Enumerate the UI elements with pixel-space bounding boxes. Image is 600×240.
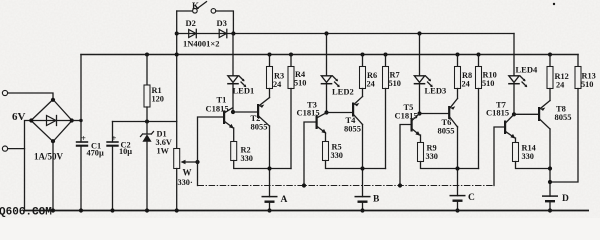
diode D2 (186, 18, 197, 38)
node R12 top (548, 53, 552, 57)
input terminal top (2, 90, 53, 99)
battery C (450, 193, 476, 211)
wire T4 base (327, 112, 353, 114)
node ground bridge (51, 208, 55, 212)
wire LED1 column (232, 34, 234, 113)
node T3 collector (324, 110, 328, 114)
wire C1 column (80, 55, 82, 211)
node LED3 top (417, 31, 421, 35)
node T1 collector (231, 110, 235, 114)
resistor R4 510 (288, 55, 306, 169)
node T5 collector (417, 111, 421, 115)
node base stub stage2 (302, 183, 306, 187)
wire T3 emitter to R5 (325, 133, 327, 142)
battery B (355, 195, 381, 211)
transistor T3 C1815 (297, 100, 327, 134)
base sense rail (198, 185, 495, 187)
wire T2 collector column (269, 126, 271, 197)
transistor T7 C1815 (486, 100, 515, 139)
resistor R13 510 (550, 55, 596, 183)
wire base stub stage2 (304, 122, 316, 186)
node ground D1 (145, 208, 149, 212)
LED2 (321, 76, 354, 97)
resistor R2 330 (231, 142, 291, 169)
node LED2 top (324, 31, 328, 35)
resistor R14 330 (513, 143, 551, 169)
resistor R9 330 (418, 143, 479, 169)
transistor T1 C1815 (206, 95, 234, 129)
transistor T2 8055 (251, 98, 270, 132)
switch K (177, 1, 234, 34)
capacitor C1 470u (76, 133, 104, 158)
LED3 (414, 76, 447, 96)
resistor R7 510 (383, 55, 401, 169)
node zener (145, 120, 149, 124)
wire T6 collector column (457, 127, 459, 196)
node R6 top (361, 53, 365, 57)
resistor R12 24 (547, 55, 569, 101)
input terminal bottom (2, 146, 24, 151)
wire T1 emitter to R2 (233, 128, 235, 142)
wire T4 collector column (362, 125, 364, 197)
node wiper (195, 160, 199, 164)
diode line (177, 33, 514, 35)
node T7 collector (512, 112, 516, 116)
node battery D ground (548, 208, 552, 212)
LED4 (508, 65, 538, 88)
wire LED4 column (513, 84, 515, 115)
resistor R1 120 (144, 55, 164, 122)
node R3 top (268, 53, 272, 57)
node battery B top (360, 166, 364, 170)
capacitor C2 10u (106, 133, 132, 156)
transistor T6 8055 (438, 99, 458, 136)
LED1 (227, 76, 254, 96)
wire T2 base (233, 111, 257, 113)
node battery B ground (360, 208, 364, 212)
node battery D top (548, 166, 552, 170)
wire T5 emitter to R9 (420, 135, 422, 143)
node battery A ground (267, 208, 271, 212)
wire T7 emitter to R14 (515, 138, 517, 143)
node R13 join (548, 180, 552, 184)
wire bridge plus (72, 120, 81, 122)
wire C2 column (112, 122, 114, 211)
transistor T4 8055 (344, 97, 363, 134)
resistor R3 24 (267, 55, 285, 98)
node R4 top (289, 53, 293, 57)
main positive rail (81, 54, 578, 56)
node rail W (175, 53, 179, 57)
battery D (542, 194, 569, 211)
wire T6 base (420, 113, 449, 115)
node ground C2 (110, 208, 114, 212)
resistor R6 24 (360, 55, 378, 97)
node R7 top (384, 53, 388, 57)
node diode line left (175, 32, 179, 36)
wire wiper to base rail (197, 162, 199, 186)
node R10 top (477, 53, 481, 57)
wire LED line right turn down (513, 34, 515, 76)
resistor R8 24 (455, 55, 473, 99)
wire bridge minus to ground rail (52, 142, 54, 211)
node battery A top (267, 166, 271, 170)
node bridge plus (79, 119, 82, 122)
zener node wire (113, 121, 177, 123)
wire T8 base (514, 113, 538, 115)
bridge rectifier 1A/50V (29, 98, 74, 144)
potentiometer W 330 (174, 149, 198, 211)
wire wiper to T1 base (198, 117, 224, 162)
node ground C1 (79, 208, 83, 212)
wire W column from switch line down (176, 11, 178, 149)
node R1 top (145, 53, 149, 57)
wire AC left (25, 121, 31, 211)
wire base stub stage4 (494, 127, 504, 186)
wire LED3 column (419, 34, 421, 114)
wire base stub stage3 (400, 125, 411, 186)
ground rail (25, 210, 590, 212)
node battery C top (455, 166, 459, 170)
transistor T5 C1815 (395, 102, 421, 136)
wire LED2 column (326, 34, 328, 113)
node battery C ground (455, 208, 459, 212)
resistor R10 510 (476, 55, 497, 169)
node D3 junction (231, 31, 235, 35)
node base stub stage3 (398, 183, 402, 187)
wire T8 collector column (549, 129, 551, 196)
zener diode D1 3.6V 1W (141, 122, 172, 211)
node R8 top (456, 53, 460, 57)
resistor R5 330 (323, 142, 386, 169)
transistor T8 8055 (539, 101, 571, 130)
speck (553, 3, 555, 5)
battery A (262, 195, 288, 211)
node ground W (175, 208, 179, 212)
diode D3 (217, 18, 227, 38)
